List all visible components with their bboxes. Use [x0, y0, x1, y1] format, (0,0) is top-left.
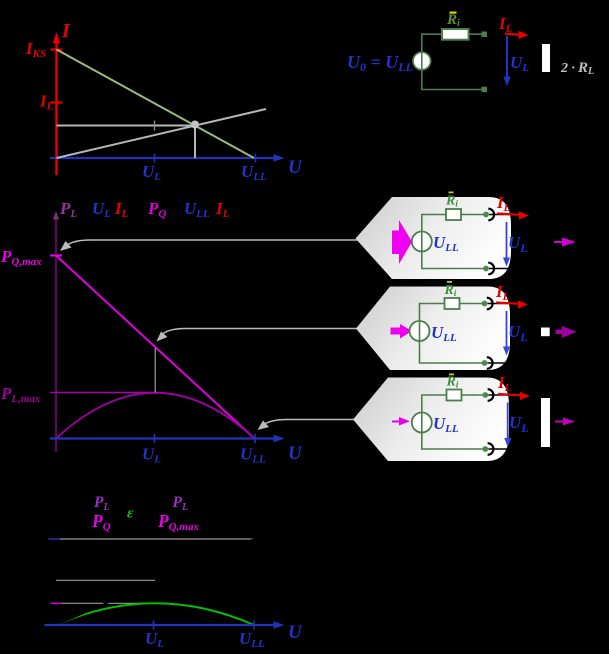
- svg-text:UL: UL: [142, 445, 161, 466]
- axis I (red vertical axis): [53, 32, 61, 175]
- P_L,max level line (purple horizontal): [50, 392, 157, 394]
- svg-text:PL: PL: [173, 494, 189, 513]
- P_Q line (magenta straight): [56, 256, 255, 439]
- wire black bottom bubble2: [488, 362, 510, 364]
- arrow U_L bubble2: [503, 311, 510, 356]
- wire black top bubble3: [488, 394, 512, 396]
- svg-text:2 ·: 2 ·: [560, 61, 575, 76]
- socket arc top bubble3: [488, 389, 494, 401]
- svg-text:U0 = ULL: U0 = ULL: [347, 52, 413, 74]
- leader arrow 1 (to P_Q,max): [60, 240, 362, 251]
- wire bottom bubble2: [420, 341, 485, 363]
- axis U graph2 (blue horizontal): [50, 435, 285, 442]
- svg-text:Ri: Ri: [446, 12, 460, 29]
- operating point (grey dot): [191, 121, 199, 129]
- axis U (blue horizontal axis): [50, 154, 285, 161]
- voltage source bubble1: [412, 232, 432, 252]
- wire bottom: [422, 69, 484, 90]
- efficiency curve (green parabola): [56, 603, 254, 625]
- level line 0.25 (grey): [62, 602, 155, 604]
- tick U_LL graph3: [253, 621, 255, 630]
- tick I_L: [51, 101, 63, 103]
- terminal dot top bubble3: [482, 392, 488, 398]
- svg-text:UL: UL: [142, 162, 161, 183]
- svg-text:PQ,max: PQ,max: [0, 247, 42, 268]
- tick U_L graph2: [154, 434, 156, 443]
- resistor R_i bubble2: [445, 298, 460, 309]
- tick on helper line: [154, 121, 156, 131]
- helper vertical (grey, peak to P_Q line): [154, 348, 156, 393]
- svg-text:IL: IL: [114, 199, 129, 220]
- svg-text:UL: UL: [508, 233, 528, 255]
- level line 0.5 (grey): [56, 579, 155, 581]
- wire bottom bubble3: [422, 433, 486, 450]
- bubble 3 shape: [353, 378, 509, 462]
- wire top (from source to resistor to terminal): [422, 34, 484, 52]
- arrow I_L bubble1: [497, 211, 529, 219]
- svg-text:IL: IL: [495, 282, 510, 303]
- wire top bubble3: [422, 395, 486, 413]
- terminal dot top bubble2: [482, 301, 488, 307]
- axis P (purple vertical axis): [53, 211, 59, 452]
- socket arc top bubble1: [488, 209, 494, 221]
- helper line U drop (grey vertical): [194, 126, 196, 159]
- wire bottom bubble1: [422, 252, 486, 269]
- yellow mark on R_i: [450, 12, 457, 14]
- svg-text:PQ: PQ: [147, 199, 166, 220]
- tick I_KS: [51, 48, 63, 50]
- wire black bottom bubble1: [489, 268, 510, 270]
- voltage source U_0: [413, 52, 431, 70]
- arrow I_L bubble2: [496, 300, 528, 308]
- arrow U_L bubble3: [504, 403, 511, 448]
- indicator arrow row1 (tiny magenta): [554, 238, 576, 247]
- indicator square row2 (white): [541, 328, 550, 337]
- svg-text:IL: IL: [215, 199, 230, 220]
- socket arc bottom bubble2: [487, 357, 493, 369]
- terminal dot bottom bubble1: [483, 266, 489, 272]
- svg-text:IL: IL: [497, 373, 512, 394]
- source line (green load characteristic from I_KS to U_LL): [57, 50, 255, 159]
- load line (grey through origin): [57, 109, 267, 158]
- big magenta power arrow: [392, 220, 412, 264]
- tick level 1.0 (blue dash): [49, 538, 61, 540]
- terminal dot top bubble1: [483, 212, 489, 218]
- leader arrow 2 (to P_Q line mid): [157, 329, 358, 342]
- wire top bubble1: [422, 215, 486, 232]
- svg-text:U: U: [288, 443, 303, 464]
- indicator arrow row2 (purple): [556, 326, 577, 338]
- svg-text:UL: UL: [510, 53, 529, 74]
- svg-text:ULL: ULL: [240, 445, 266, 466]
- tick U_L graph3: [153, 621, 155, 630]
- svg-text:PQ: PQ: [91, 511, 111, 533]
- arrow U_L bubble1: [503, 222, 510, 267]
- svg-text:Ri: Ri: [445, 194, 458, 209]
- terminal dot bottom bubble2: [482, 360, 488, 366]
- terminal top (green square): [482, 32, 488, 38]
- svg-text:PQ,max: PQ,max: [157, 511, 199, 533]
- resistor R_i bubble3: [447, 390, 462, 401]
- terminal bottom (green square): [482, 87, 488, 93]
- svg-text:ε: ε: [127, 506, 134, 522]
- svg-text:IL: IL: [498, 14, 513, 35]
- svg-text:ULL: ULL: [184, 199, 210, 220]
- wire black bottom bubble3: [488, 448, 510, 450]
- svg-text:ULL: ULL: [239, 629, 265, 650]
- epsilon line (black, visible only where it crosses grey/green): [56, 539, 254, 625]
- arrow U_L (blue down): [503, 36, 510, 86]
- yellow mark on R_i bubble1: [449, 192, 454, 194]
- wire top bubble2: [420, 304, 485, 322]
- svg-text:Ri: Ri: [444, 283, 457, 298]
- indicator arrow row3 (tiny magenta): [555, 418, 575, 426]
- svg-text:PL,max: PL,max: [0, 384, 41, 405]
- P_L parabola: [56, 393, 255, 439]
- svg-text:IL: IL: [496, 193, 511, 214]
- wire black top bubble1: [489, 214, 512, 216]
- svg-text:ULL: ULL: [241, 162, 267, 183]
- medium magenta power arrow: [391, 324, 413, 339]
- tick U_LL graph2: [254, 434, 256, 443]
- svg-text:U: U: [288, 622, 303, 643]
- socket arc top bubble2: [487, 298, 493, 310]
- svg-text:Ri: Ri: [446, 375, 459, 390]
- terminal dot bottom bubble3: [482, 446, 488, 452]
- svg-text:IKS: IKS: [25, 39, 46, 60]
- svg-text:I: I: [61, 20, 71, 42]
- resistor R_i bubble1: [446, 209, 461, 220]
- small magenta power arrow: [392, 417, 410, 426]
- svg-text:U: U: [288, 157, 303, 178]
- socket arc bottom bubble1: [488, 263, 494, 275]
- level line 1.0 (grey): [60, 538, 254, 540]
- svg-text:PL: PL: [59, 199, 77, 220]
- svg-text:UL: UL: [509, 413, 529, 435]
- voltage source bubble2: [410, 321, 430, 341]
- yellow mark on R_i bubble2: [447, 281, 452, 283]
- tick U_L: [154, 154, 156, 163]
- wire black top bubble2: [488, 303, 512, 305]
- load bar 2RL (white): [542, 44, 550, 72]
- tick level 0.25 (magenta dash): [51, 602, 63, 604]
- bubble 2 shape: [356, 287, 510, 371]
- tick U_LL: [255, 154, 257, 163]
- voltage source bubble3: [412, 413, 432, 433]
- helper line I_L (grey horizontal): [57, 125, 196, 127]
- svg-text:RL: RL: [577, 60, 594, 77]
- svg-text:UL: UL: [508, 322, 528, 344]
- svg-text:IL: IL: [39, 92, 54, 113]
- leader arrow 3 (to U_LL point): [258, 420, 355, 431]
- svg-text:UL: UL: [92, 199, 111, 220]
- tick P_Q,max: [50, 255, 62, 257]
- socket arc bottom bubble3: [488, 443, 494, 455]
- bubble 1 shape: [356, 197, 512, 279]
- yellow mark on R_i bubble3: [449, 374, 454, 376]
- arrow I_L bubble3: [498, 392, 530, 400]
- arrow I_L (red): [505, 31, 529, 39]
- svg-text:UL: UL: [145, 629, 164, 650]
- indicator bar row3 (tall white): [541, 398, 550, 447]
- resistor R_i: [442, 29, 469, 40]
- axis U graph3 (blue horizontal): [45, 621, 285, 628]
